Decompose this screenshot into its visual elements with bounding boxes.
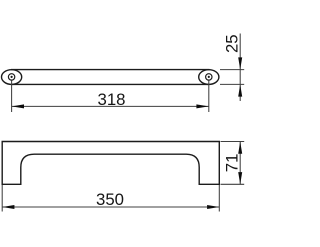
dimension line 350 <box>2 206 219 208</box>
svg-text:318: 318 <box>98 90 126 109</box>
handle side view: bar bottom edge <box>11 83 210 85</box>
arrowhead 25 upper (points down) <box>238 57 242 69</box>
svg-text:71: 71 <box>223 154 242 173</box>
extension line 318 right <box>208 81 210 113</box>
arrowhead 350 left <box>2 205 14 209</box>
extension line 25 top <box>220 69 244 71</box>
hole right center dot <box>208 76 210 78</box>
dimension line 25 <box>239 34 241 102</box>
arrowhead 25 lower (points up) <box>238 84 242 96</box>
extension line 350 right <box>218 185 220 212</box>
svg-text:350: 350 <box>96 190 124 209</box>
handle front view outline <box>2 142 219 185</box>
handle side view: bar top edge <box>11 69 210 71</box>
hole left center dot <box>11 76 13 78</box>
arrowhead 71 lower (points down) <box>238 172 242 184</box>
arrowhead 318 left <box>12 104 24 108</box>
arrowhead 71 upper (points up) <box>238 142 242 154</box>
dimension line 71 <box>239 142 241 185</box>
extension line 318 left <box>11 81 13 113</box>
extension line 71 top <box>221 141 245 143</box>
mounting hole right <box>206 74 212 80</box>
arrowhead 350 right <box>207 205 219 209</box>
mounting hole left <box>8 74 14 80</box>
boss left end <box>2 70 22 85</box>
svg-text:25: 25 <box>223 34 242 53</box>
extension line 71 bottom <box>221 183 245 185</box>
extension line 350 left <box>1 185 3 212</box>
arrowhead 318 right <box>196 104 208 108</box>
extension line 25 bottom <box>220 83 244 85</box>
dimension line 318 <box>12 105 209 107</box>
boss right end <box>199 70 219 85</box>
